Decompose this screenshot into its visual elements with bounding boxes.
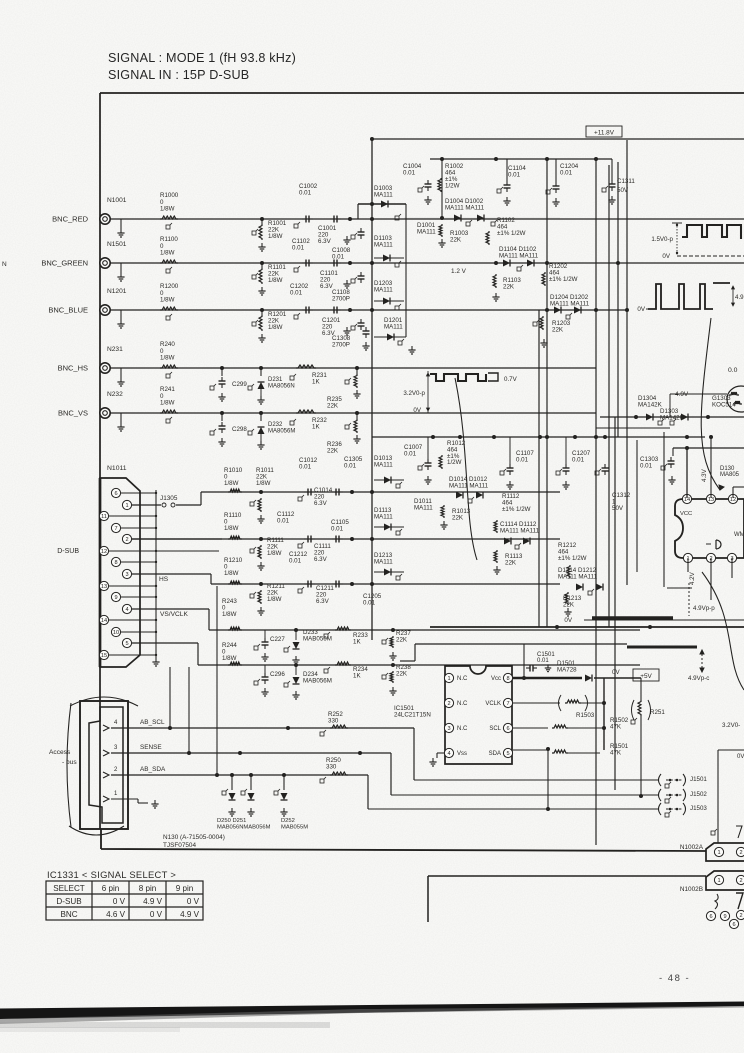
svg-text:SELECT: SELECT [53,884,85,893]
svg-text:C1501: C1501 [537,652,555,658]
svg-text:MAB056M: MAB056M [303,677,332,684]
svg-text:BNC_VS: BNC_VS [58,408,88,417]
svg-text:0.01: 0.01 [516,457,529,464]
svg-text:MA8056N: MA8056N [268,383,295,389]
svg-text:1/8W: 1/8W [224,570,239,577]
svg-text:1/8W: 1/8W [160,297,175,304]
svg-text:1/8W: 1/8W [256,480,271,487]
svg-text:6: 6 [709,914,712,920]
svg-text:4: 4 [447,751,450,757]
svg-text:Access: Access [49,749,71,756]
svg-text:0.01: 0.01 [403,170,416,177]
svg-text:D250 D251: D250 D251 [217,818,246,824]
svg-text:6.3V: 6.3V [314,556,328,563]
svg-text:3: 3 [447,726,450,732]
svg-text:0.7V: 0.7V [504,376,518,383]
svg-text:±1% 1/2W: ±1% 1/2W [558,555,587,562]
svg-text:R1503: R1503 [576,712,595,719]
svg-text:1/8W: 1/8W [160,355,175,362]
svg-text:0V: 0V [413,407,421,414]
svg-text:0.01: 0.01 [363,600,376,607]
svg-text:BNC_BLUE: BNC_BLUE [48,305,88,314]
svg-text:N1002A: N1002A [680,844,704,851]
svg-text:50V: 50V [612,505,624,512]
svg-text:1/8W: 1/8W [160,250,175,257]
svg-text:0 V: 0 V [150,910,163,919]
svg-text:7: 7 [506,701,509,707]
svg-text:C298: C298 [232,426,247,433]
svg-text:N1002B: N1002B [680,886,703,893]
svg-text:1.2 V: 1.2 V [451,268,467,275]
svg-text:6: 6 [114,491,117,497]
svg-text:0.01: 0.01 [299,190,312,197]
svg-text:BNC_GREEN: BNC_GREEN [41,258,88,267]
svg-text:6 pin: 6 pin [102,884,120,893]
svg-text:N130 (A-71505-0004): N130 (A-71505-0004) [163,834,225,841]
svg-text:J1503: J1503 [690,805,707,812]
svg-text:KOC514: KOC514 [712,401,736,408]
svg-text:11: 11 [101,514,107,520]
svg-text:1/8W: 1/8W [224,525,239,532]
svg-text:- bus: - bus [62,759,77,766]
svg-text:0.01: 0.01 [290,290,303,297]
svg-text:22K: 22K [450,236,462,243]
svg-text:0.01: 0.01 [331,526,344,533]
svg-text:C227: C227 [270,636,285,643]
svg-text:330: 330 [328,717,339,724]
svg-text:N1001: N1001 [107,197,127,204]
svg-text:4.9: 4.9 [735,294,744,301]
svg-text:MA111: MA111 [374,513,393,520]
svg-text:MAB056M: MAB056M [303,635,332,642]
svg-text:6: 6 [732,922,735,928]
svg-text:D232: D232 [268,422,283,428]
svg-text:22K: 22K [452,514,464,521]
svg-text:1.5V0-p: 1.5V0-p [651,236,673,243]
svg-text:22K: 22K [327,447,339,454]
svg-text:TJSF07504: TJSF07504 [163,842,196,849]
svg-text:AB_SDA: AB_SDA [140,766,166,773]
svg-text:1/8W: 1/8W [267,550,282,557]
svg-text:24LC21T15N: 24LC21T15N [394,712,431,719]
svg-text:0.01: 0.01 [277,518,290,525]
svg-text:0V: 0V [737,754,744,760]
svg-text:3.2V0-p: 3.2V0-p [403,390,425,397]
svg-text:MA142K: MA142K [660,414,685,421]
svg-text:J1502: J1502 [690,791,707,798]
svg-text:3.2V0-: 3.2V0- [722,722,740,729]
svg-text:0.01: 0.01 [289,558,302,565]
svg-text:0.01: 0.01 [560,170,573,177]
svg-text:N: N [2,261,7,268]
svg-text:0.0: 0.0 [728,367,738,374]
svg-text:+5V: +5V [640,673,652,680]
svg-text:C296: C296 [270,671,285,678]
svg-text:D-SUB: D-SUB [56,897,81,906]
svg-text:0.01: 0.01 [332,254,345,261]
svg-text:1/8W: 1/8W [267,596,282,603]
svg-text:1: 1 [447,676,450,682]
svg-text:0.01: 0.01 [640,463,653,470]
svg-text:Vss: Vss [457,751,467,757]
svg-text:SIGNAL : MODE 1 (fH 93.8 kHz): SIGNAL : MODE 1 (fH 93.8 kHz) [108,51,296,65]
svg-text:8 pin: 8 pin [139,884,157,893]
svg-text:SCL: SCL [489,726,501,732]
svg-text:330: 330 [326,763,337,770]
svg-text:N.C: N.C [457,676,468,682]
svg-text:12: 12 [101,549,107,555]
svg-text:N231: N231 [107,346,123,353]
svg-text:±1% 1/2W: ±1% 1/2W [502,506,531,513]
svg-text:0 V: 0 V [187,897,200,906]
svg-text:6.3V: 6.3V [314,500,328,507]
svg-text:WM: WM [734,532,744,538]
svg-text:15: 15 [101,653,107,659]
svg-text:R251: R251 [650,709,665,716]
svg-text:0.01: 0.01 [572,457,585,464]
svg-text:MA111: MA111 [374,558,393,565]
svg-text:HS: HS [159,576,169,583]
svg-text:4.9 V: 4.9 V [180,910,200,919]
svg-text:1/8W: 1/8W [222,655,237,662]
svg-text:9 pin: 9 pin [176,884,194,893]
svg-text:J1305: J1305 [160,495,178,502]
svg-text:47K: 47K [610,749,622,756]
svg-text:9: 9 [114,595,117,601]
svg-text:BNC_HS: BNC_HS [58,363,88,372]
svg-text:0V: 0V [564,617,572,624]
svg-text:2: 2 [447,701,450,707]
svg-text:2: 2 [739,878,742,884]
svg-text:6: 6 [506,726,509,732]
svg-text:SDA: SDA [489,751,501,757]
svg-text:4.9Vp-p: 4.9Vp-p [693,605,715,612]
svg-text:4.9V: 4.9V [675,391,689,398]
svg-text:1: 1 [717,878,720,884]
svg-text:6.3V: 6.3V [316,598,330,605]
svg-text:1/8W: 1/8W [160,400,175,407]
svg-text:1/8W: 1/8W [268,233,283,240]
svg-text:MA111 MA111: MA111 MA111 [449,482,489,489]
svg-text:0.01: 0.01 [299,464,312,471]
svg-text:MA142K: MA142K [638,401,663,408]
svg-text:VS/VCLK: VS/VCLK [160,611,188,618]
svg-text:4.3V: 4.3V [701,468,708,482]
svg-text:MAB056NMAB056M: MAB056NMAB056M [217,824,271,830]
svg-text:3: 3 [125,572,128,578]
svg-text:MA111 MA111: MA111 MA111 [445,204,485,211]
svg-text:D-SUB: D-SUB [57,548,79,555]
svg-text:0 V: 0 V [113,897,126,906]
svg-text:SENSE: SENSE [140,744,162,751]
svg-text:VCLK: VCLK [485,701,501,707]
svg-text:13: 13 [101,584,107,590]
svg-text:47K: 47K [610,723,622,730]
svg-text:22K: 22K [552,326,564,333]
svg-text:C299: C299 [232,381,247,388]
svg-text:1K: 1K [312,378,320,385]
svg-text:MAB055M: MAB055M [281,824,308,830]
svg-text:1/8W: 1/8W [268,277,283,284]
svg-text:0V: 0V [662,253,670,260]
svg-text:Vcc: Vcc [491,676,501,682]
svg-text:4: 4 [125,607,128,613]
svg-text:MA111 MA111: MA111 MA111 [550,300,590,307]
svg-text:D252: D252 [281,818,295,824]
svg-text:D130: D130 [720,466,735,472]
svg-text:MA111 MA111: MA111 MA111 [499,252,539,259]
svg-text:5: 5 [506,751,509,757]
svg-text:1/8W: 1/8W [224,480,239,487]
svg-text:N.C: N.C [457,726,468,732]
svg-text:4.6 V: 4.6 V [106,910,126,919]
svg-text:MA111: MA111 [374,286,393,293]
svg-text:MA111 MA111: MA111 MA111 [558,573,598,580]
svg-text:22K: 22K [327,402,339,409]
svg-text:N1501: N1501 [107,241,127,248]
svg-text:0V: 0V [637,306,645,313]
svg-text:D231: D231 [268,377,283,383]
svg-text:8: 8 [114,560,117,566]
svg-text:N232: N232 [107,391,123,398]
svg-text:BNC_RED: BNC_RED [52,214,88,223]
svg-text:MA8056M: MA8056M [268,428,295,434]
svg-text:MA111: MA111 [374,191,393,198]
svg-text:MA111: MA111 [374,461,393,468]
svg-text:1K: 1K [353,672,361,679]
svg-text:1K: 1K [353,638,361,645]
svg-text:0.01: 0.01 [404,451,417,458]
svg-text:J1501: J1501 [690,776,707,783]
svg-text:MA805: MA805 [720,472,740,478]
svg-text:4.2V: 4.2V [689,571,696,585]
svg-text:22K: 22K [396,670,408,677]
svg-text:1/8W: 1/8W [160,206,175,213]
svg-text:6.3V: 6.3V [318,238,332,245]
svg-text:22K: 22K [505,559,517,566]
svg-text:VCC: VCC [680,511,692,517]
svg-text:- 48 -: - 48 - [659,973,690,984]
svg-text:N1011: N1011 [107,465,127,472]
svg-text:4.9 V: 4.9 V [143,897,163,906]
svg-text:8: 8 [506,676,509,682]
svg-text:0V: 0V [612,669,620,676]
svg-text:N1201: N1201 [107,288,127,295]
svg-text:10: 10 [113,630,119,636]
svg-text:1/2W: 1/2W [445,183,460,190]
svg-text:1/8W: 1/8W [222,611,237,618]
svg-text:+11.8V: +11.8V [594,130,615,137]
svg-text:1/8W: 1/8W [268,324,283,331]
svg-text:IC1331 < SIGNAL SELECT >: IC1331 < SIGNAL SELECT > [47,869,176,880]
svg-text:MA111: MA111 [417,228,436,235]
svg-text:BNC: BNC [60,910,77,919]
svg-text:0.01: 0.01 [508,172,521,179]
svg-text:MA111: MA111 [384,323,403,330]
svg-text:N.C: N.C [457,701,468,707]
svg-text:22K: 22K [503,283,515,290]
svg-text:0.01: 0.01 [292,245,305,252]
svg-text:1: 1 [717,850,720,856]
svg-text:4.9Vp-c: 4.9Vp-c [688,675,709,682]
svg-text:2: 2 [739,913,742,919]
svg-text:±1% 1/2W: ±1% 1/2W [549,276,578,283]
svg-text:1/2W: 1/2W [447,459,462,466]
svg-text:2700P: 2700P [332,342,350,349]
svg-text:C1311: C1311 [617,178,635,185]
svg-text:MA111: MA111 [374,241,393,248]
svg-text:AB_SCL: AB_SCL [140,719,165,726]
svg-text:0.01: 0.01 [537,658,549,664]
svg-text:SIGNAL IN : 15P D-SUB: SIGNAL IN : 15P D-SUB [108,68,249,82]
svg-text:5: 5 [125,641,128,647]
svg-text:1: 1 [125,503,128,509]
svg-text:±1% 1/2W: ±1% 1/2W [497,230,526,237]
svg-text:9: 9 [723,914,726,920]
svg-text:1K: 1K [312,423,320,430]
svg-text:MA728: MA728 [557,666,577,673]
svg-text:2: 2 [125,537,128,543]
svg-text:MA111: MA111 [414,504,433,511]
svg-text:MA111 MA111: MA111 MA111 [500,527,540,534]
svg-text:2700P: 2700P [332,296,350,303]
svg-text:22K: 22K [396,636,408,643]
svg-text:2: 2 [739,850,742,856]
svg-text:14: 14 [101,618,107,624]
svg-text:0.01: 0.01 [344,463,357,470]
svg-text:7: 7 [114,526,117,532]
